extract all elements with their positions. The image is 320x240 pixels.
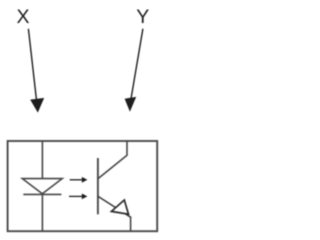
svg-text:Y: Y: [136, 6, 149, 28]
svg-text:X: X: [16, 6, 29, 28]
